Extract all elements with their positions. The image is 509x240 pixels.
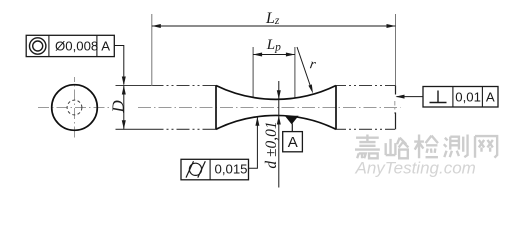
svg-text:0,015: 0,015 <box>215 161 248 176</box>
svg-text:r: r <box>309 56 318 73</box>
svg-text:A: A <box>486 89 495 104</box>
svg-text:D: D <box>109 100 128 114</box>
svg-text:Ø0,008: Ø0,008 <box>55 38 98 53</box>
svg-text:A: A <box>288 134 298 151</box>
svg-text:0,01: 0,01 <box>455 89 481 104</box>
svg-text:Lz: Lz <box>265 10 280 27</box>
svg-text:AnyTesting.com: AnyTesting.com <box>355 159 476 178</box>
svg-text:Lp: Lp <box>266 37 281 54</box>
svg-text:d ±0,01: d ±0,01 <box>263 121 280 168</box>
svg-text:A: A <box>101 39 110 54</box>
